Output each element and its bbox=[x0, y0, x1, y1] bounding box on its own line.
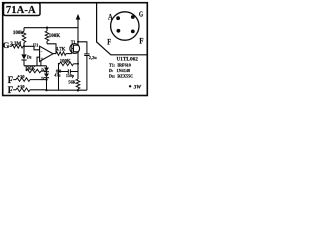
svg-text:10: 10 bbox=[20, 84, 25, 89]
svg-text:A: A bbox=[108, 12, 113, 21]
svg-text:4.7K: 4.7K bbox=[56, 48, 66, 53]
wire op-amp V- pin bbox=[40, 61, 42, 66]
node source/rail bbox=[77, 89, 80, 92]
wire bbox=[23, 43, 25, 47]
wire bbox=[13, 79, 16, 81]
wire bbox=[78, 42, 87, 54]
svg-text:T1: T1 bbox=[71, 41, 76, 45]
wire bbox=[46, 66, 48, 68]
wire bbox=[13, 89, 16, 91]
wire feedback bbox=[47, 44, 56, 54]
wire bbox=[30, 89, 47, 91]
label 10 ohm bbox=[18, 75, 20, 77]
wire bbox=[10, 45, 12, 47]
capacitor C3 2.2u plates bbox=[84, 53, 89, 55]
socket pin (bottom-right dot, pin F) bbox=[131, 30, 135, 34]
svg-text:+: + bbox=[41, 56, 44, 61]
border frame bbox=[3, 3, 148, 96]
transistor T1 source stub bbox=[74, 51, 79, 53]
wire bbox=[59, 63, 60, 65]
wire source bbox=[77, 52, 79, 79]
tube socket V1 base bbox=[111, 12, 139, 40]
svg-text:Dz: Dz bbox=[27, 55, 32, 59]
socket pin (top-right dot, pin G) bbox=[131, 15, 135, 19]
wire bbox=[23, 60, 25, 66]
svg-text:3.3M: 3.3M bbox=[10, 42, 21, 47]
diode D4 bbox=[44, 74, 49, 78]
wire bbox=[70, 71, 78, 73]
resistor R9 10 bbox=[16, 88, 30, 92]
svg-text:F: F bbox=[8, 85, 14, 95]
svg-text:2,2u: 2,2u bbox=[89, 55, 97, 60]
svg-text:F: F bbox=[139, 37, 143, 46]
resistor R5 4.7K bbox=[56, 52, 66, 56]
diode D3 bbox=[44, 68, 49, 72]
wire bbox=[74, 63, 79, 65]
panel separator bbox=[97, 3, 148, 55]
wire bbox=[46, 78, 48, 91]
svg-text:100K: 100K bbox=[49, 34, 61, 39]
wire bbox=[86, 56, 88, 91]
resistor R8 10 bbox=[16, 78, 30, 82]
svg-text:D: D bbox=[41, 77, 44, 81]
svg-text:56K: 56K bbox=[68, 80, 76, 85]
wire bbox=[24, 65, 47, 67]
power rating bullet bbox=[129, 85, 131, 87]
wire op-amp + input drop bbox=[37, 57, 40, 66]
wire bbox=[46, 41, 48, 44]
svg-text:150p: 150p bbox=[66, 73, 75, 78]
resistor R7 56K bbox=[76, 79, 80, 89]
capacitor C1 47u plate1 bbox=[56, 69, 61, 71]
+V supply arrow bbox=[76, 14, 81, 20]
wire bbox=[66, 53, 72, 55]
socket pin (bottom-left dot, pin F) bbox=[117, 29, 121, 33]
svg-text:10: 10 bbox=[20, 74, 25, 79]
node drain tap bbox=[77, 41, 79, 43]
svg-text:D: D bbox=[41, 69, 44, 73]
transistor T1 body bbox=[70, 44, 80, 54]
diode Dz bbox=[21, 54, 26, 59]
wire bbox=[59, 64, 69, 72]
node F1/stack bbox=[45, 79, 47, 81]
label 10 ohm b bbox=[18, 85, 20, 87]
svg-text:U1: U1 bbox=[33, 42, 38, 47]
svg-text:3W: 3W bbox=[133, 85, 142, 91]
wire ground rail bbox=[47, 89, 87, 91]
node rail/R2 junction bbox=[46, 27, 48, 29]
wire bbox=[46, 28, 48, 31]
node input bbox=[23, 45, 25, 47]
wire +V rail bbox=[24, 27, 78, 29]
svg-text:G: G bbox=[139, 10, 144, 18]
resistor R4 36K bbox=[26, 69, 41, 73]
diode Dz cathode bar bbox=[21, 59, 26, 61]
wire bbox=[46, 72, 48, 74]
transistor T1 channel bbox=[73, 45, 75, 52]
op-amp U1 bbox=[40, 46, 53, 61]
node bbox=[77, 63, 79, 65]
transistor T1 gate bar bbox=[71, 45, 73, 53]
transistor T1 arrow bbox=[72, 48, 74, 49]
svg-text:T1: IRF610: T1: IRF610 bbox=[109, 63, 131, 68]
socket pin F (top-left dot, pin A) bbox=[116, 16, 120, 20]
capacitor C2 150p plate2 bbox=[69, 69, 71, 73]
svg-text:100k: 100k bbox=[13, 31, 24, 36]
svg-text:G: G bbox=[3, 40, 10, 50]
svg-text:D: 1N4148: D: 1N4148 bbox=[109, 68, 130, 73]
svg-text:71A-A: 71A-A bbox=[6, 5, 36, 16]
wire bbox=[58, 72, 60, 90]
resistor R2 100K bbox=[45, 31, 49, 41]
wire bbox=[41, 70, 47, 72]
diode D3 bar bbox=[44, 71, 49, 73]
wire bbox=[23, 28, 25, 32]
wire op-amp output bbox=[52, 53, 56, 55]
svg-text:47u: 47u bbox=[54, 74, 61, 78]
wire bbox=[25, 66, 27, 71]
resistor R3 3.3M bbox=[12, 45, 24, 49]
title box bbox=[4, 3, 41, 16]
svg-text:Dz: BZX55C: Dz: BZX55C bbox=[109, 73, 133, 78]
resistor R6 100K bbox=[60, 62, 74, 66]
transistor T1 drain stub bbox=[74, 44, 79, 46]
wire to op-amp + bbox=[24, 46, 40, 50]
svg-text:100K: 100K bbox=[60, 59, 71, 64]
wire +V drain line bbox=[77, 17, 79, 45]
svg-text:F: F bbox=[107, 38, 111, 47]
svg-text:F: F bbox=[8, 75, 14, 85]
svg-text:36K: 36K bbox=[27, 67, 36, 72]
capacitor C1 47u plate2 bbox=[56, 71, 61, 73]
wire bbox=[30, 79, 47, 81]
capacitor C3 plate2 bbox=[84, 55, 89, 57]
node fb bbox=[58, 63, 60, 65]
wire bbox=[23, 46, 25, 54]
node stack/rail bbox=[45, 89, 47, 91]
diode D4 bar bbox=[44, 77, 49, 79]
capacitor C2 150p plate1 bbox=[67, 69, 69, 73]
resistor R1 100k bbox=[22, 31, 26, 42]
